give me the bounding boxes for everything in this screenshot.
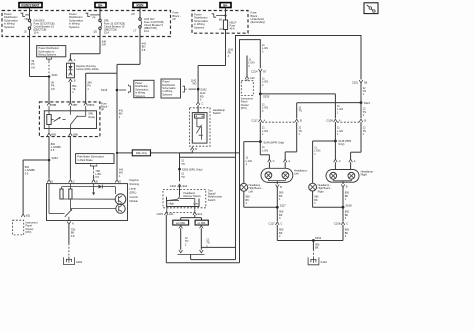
note power distribution box (S216): [134, 80, 154, 98]
wire S404 to ground: [313, 241, 320, 257]
svg-text:S216: S216: [101, 88, 108, 92]
note power distribution 2: [69, 12, 100, 29]
svg-text:H8S: H8S: [51, 133, 56, 137]
svg-text:G104: G104: [321, 260, 328, 264]
splice S262: [197, 87, 207, 101]
wire S148 branch to high beam indicator right: [313, 141, 336, 183]
wire E12 to option boxes: [181, 215, 202, 220]
connector C108 dashed link A-B: [337, 121, 359, 123]
svg-text:Right: Right: [361, 173, 368, 177]
svg-text:TN: TN: [298, 109, 302, 113]
node B+ (DRL fuse feed): [95, 3, 106, 8]
svg-text:A: A: [72, 222, 74, 226]
relay cavity H8B: [47, 103, 56, 107]
svg-text:(IPC): (IPC): [241, 106, 247, 110]
svg-text:S117: S117: [280, 204, 287, 208]
wire relay H3B to DRL module: [69, 137, 71, 179]
svg-text:S335: S335: [263, 95, 270, 99]
wire S108 to C108 C: [343, 207, 350, 221]
svg-text:B: B: [300, 119, 302, 123]
node RUN/START: [19, 3, 42, 8]
node RUN: [133, 3, 147, 8]
DRL module pin A: [67, 222, 74, 226]
svg-text:G201: G201: [76, 260, 83, 264]
svg-text:Systems: Systems: [135, 94, 145, 98]
wire C108 C to S404: [313, 225, 349, 241]
splice S211: [48, 73, 58, 78]
svg-text:C: C: [346, 222, 348, 226]
instrument panel cluster (top, dashed): [241, 81, 254, 110]
svg-text:C201: C201: [157, 212, 164, 216]
wire relay H8S to S264: [49, 137, 61, 179]
svg-text:C201: C201: [352, 80, 359, 84]
svg-text:C117: C117: [268, 222, 275, 226]
wire C117 B to left headlamp pin A: [285, 122, 302, 159]
svg-text:I/P: I/P: [101, 108, 104, 112]
svg-text:B: B: [96, 180, 98, 184]
pin A of DRL diode: [69, 58, 76, 62]
wire S146 branch to high beam indicator left: [244, 142, 260, 184]
wire C108 A to S148: [335, 122, 343, 141]
pin B of headlamp switch: [191, 147, 198, 151]
svg-text:E: E: [119, 180, 121, 184]
fuse AUX RLY: [132, 8, 164, 33]
wire S146 to left headlamp pin C: [260, 142, 269, 160]
fuse block underhood (dashed box): [192, 11, 248, 34]
wire S148 to right headlamp pin C: [334, 141, 336, 159]
note power distribution 1: [4, 12, 30, 29]
DRL module pin E: [115, 180, 121, 184]
svg-text:C108: C108: [334, 222, 341, 226]
wire IPC branch 11 L-GN: [247, 56, 255, 77]
svg-text:D: D: [51, 180, 53, 184]
pin A of right headlamp: [349, 159, 356, 170]
svg-text:E12: E12: [198, 212, 203, 216]
svg-text:RUN/START: RUN/START: [21, 3, 39, 7]
pin B11 of IPC: [21, 214, 31, 218]
connector C117 pin C: [268, 222, 282, 226]
svg-text:A: A: [354, 159, 356, 163]
svg-text:0.8: 0.8: [31, 65, 35, 69]
DRL module pin D: [47, 180, 53, 184]
svg-text:S264: S264: [52, 156, 59, 160]
fuse block I/P (dashed box): [2, 11, 171, 37]
svg-text:B: B: [74, 79, 76, 83]
svg-text:Switch: Switch: [208, 198, 216, 202]
svg-text:A: A: [339, 119, 341, 123]
wire HDLP 1142 RD: [191, 30, 234, 102]
svg-text:S404: S404: [315, 236, 322, 240]
svg-text:w/o DRL: w/o DRL: [176, 221, 186, 225]
splice S216: [101, 85, 131, 94]
wire B7 to S335: [260, 72, 268, 94]
svg-text:Q5: Q5: [94, 30, 98, 34]
svg-text:Systems: Systems: [4, 25, 15, 29]
wire B+ 340 OR to DRL diode: [70, 29, 106, 60]
relay fuse block dashed box: [39, 102, 100, 137]
pin A of left headlamp: [283, 159, 290, 169]
svg-text:E10: E10: [183, 184, 188, 188]
svg-text:A: A: [264, 119, 266, 123]
wire S321 to right headlamp pin A: [351, 103, 367, 160]
connector C214 pin B7: [251, 69, 267, 73]
left headlamp: [261, 168, 308, 182]
svg-text:S260 (DRL Only): S260 (DRL Only): [182, 167, 202, 171]
svg-text:(DRL): (DRL): [130, 191, 137, 195]
high beam indicator left: [240, 183, 263, 193]
svg-text:Low: Low: [193, 202, 198, 206]
svg-text:S262: S262: [200, 87, 207, 91]
wire headlamp switch output: [180, 150, 236, 181]
svg-text:S211: S211: [52, 73, 59, 77]
pin B of right headlamp: [341, 182, 348, 189]
splice S148: [334, 139, 351, 146]
svg-text:DRL Only: DRL Only: [136, 151, 148, 155]
wire 441 BN label at module: [119, 168, 124, 178]
svg-text:C: C: [339, 159, 341, 163]
svg-text:Control: Control: [130, 195, 139, 199]
label fuse block underhood: [251, 11, 266, 25]
relay cavity H3B: [69, 133, 78, 137]
option box w/ DRL: [195, 220, 208, 225]
svg-text:Lamps (DRL) Diode: Lamps (DRL) Diode: [76, 67, 99, 71]
wire high-beam loop (left+top): [240, 40, 261, 263]
svg-text:A: A: [74, 58, 76, 62]
svg-text:RUN: RUN: [137, 3, 145, 7]
svg-text:B: B: [346, 185, 348, 189]
svg-text:(IPC): (IPC): [25, 230, 31, 234]
option box DRL Only: [132, 150, 150, 156]
wire hb indicator right to S108: [313, 191, 343, 207]
svg-text:Relay: Relay: [89, 115, 96, 119]
svg-text:Dimmer Switch: Dimmer Switch: [184, 194, 202, 198]
wire low-beam loop (left+top): [236, 36, 362, 260]
pin B of DRL diode: [69, 79, 76, 83]
svg-text:Left: Left: [294, 172, 299, 176]
svg-text:TN: TN: [181, 162, 185, 166]
svg-text:0.5: 0.5: [25, 171, 29, 175]
wire high-beam E11 run: [166, 215, 239, 263]
svg-text:in Park Brake: in Park Brake: [77, 158, 93, 162]
svg-text:15 A: 15 A: [104, 30, 109, 34]
pin B of left headlamp: [276, 182, 283, 189]
instrument panel cluster (bottom-left, dashed): [13, 220, 38, 235]
merge arrows and bar: [178, 250, 205, 260]
svg-text:OR: OR: [102, 43, 106, 47]
note power distribution box (S262): [161, 79, 196, 98]
svg-text:Lamp: Lamp: [130, 186, 137, 190]
node B+ (HDLP fuse feed): [220, 3, 231, 8]
svg-text:C108: C108: [326, 119, 333, 123]
svg-text:H8B: H8B: [51, 103, 56, 107]
svg-text:S108: S108: [345, 204, 352, 208]
wire module A to ground: [69, 224, 76, 256]
svg-text:H3B: H3B: [73, 133, 78, 137]
svg-text:B11: B11: [26, 214, 31, 218]
svg-text:0.8: 0.8: [142, 48, 146, 52]
wire S117 to C117 C: [277, 207, 284, 221]
svg-text:S321: S321: [364, 101, 371, 105]
relay cavity H8S: [47, 133, 56, 137]
connector C201 pins E11 E12: [157, 212, 203, 216]
svg-text:10 A: 10 A: [34, 30, 39, 34]
wire 441 BN below S216: [119, 109, 124, 119]
svg-text:BK: BK: [315, 246, 319, 250]
relay cavity H8TA: [84, 103, 95, 107]
wire S264 branch to IPC B11: [23, 160, 49, 214]
svg-text:Module: Module: [130, 199, 139, 203]
svg-text:Switch: Switch: [213, 111, 221, 115]
svg-text:Only): Only): [338, 142, 344, 146]
turn signal / multifunction switch (dashed): [163, 188, 223, 207]
wire left headlamp B to S117: [277, 188, 284, 208]
connector C117 pin B: [295, 119, 302, 123]
svg-text:B: B: [195, 147, 197, 151]
svg-text:Park Brake Schematics: Park Brake Schematics: [77, 155, 104, 159]
DRL module pin C: [69, 180, 75, 184]
connector C201 pin B6 (low beam loop): [352, 80, 368, 84]
DRL module pin B: [92, 180, 98, 184]
svg-text:Wiring Systems: Wiring Systems: [38, 53, 56, 57]
connector C117 pin A: [251, 119, 265, 123]
svg-text:C117: C117: [251, 119, 258, 123]
option box w/o DRL: [173, 220, 189, 225]
DRL diode: [67, 63, 100, 78]
wire RUN 441 BN: [117, 28, 147, 179]
splice S108: [342, 204, 353, 209]
svg-text:H8T: H8T: [73, 103, 78, 107]
wire S335 down to C117 A: [260, 94, 268, 118]
ground G104: [308, 257, 327, 265]
svg-text:0.5: 0.5: [51, 148, 55, 152]
svg-text:C: C: [73, 180, 75, 184]
svg-text:w/ DRL: w/ DRL: [198, 221, 207, 225]
headlamp switch: [190, 105, 226, 146]
svg-text:C214: C214: [251, 69, 258, 73]
connector C108 pin A: [326, 119, 340, 123]
wire 804 YE to relay H8T: [70, 82, 77, 103]
fuse GAUGES: [24, 8, 55, 35]
svg-text:0.8: 0.8: [51, 87, 55, 91]
pin C of left headlamp: [268, 159, 275, 169]
svg-text:B+: B+: [98, 3, 102, 7]
svg-text:A: A: [288, 159, 290, 163]
label fuse block I/P (relay): [101, 102, 109, 112]
wire loop to B7 label: [262, 43, 268, 53]
splice S404: [312, 236, 322, 242]
DRL relay: [44, 106, 96, 133]
splice S264: [48, 156, 59, 161]
svg-text:B+: B+: [223, 3, 227, 7]
wire merge to low-beam loop: [191, 259, 236, 261]
splice S260: [178, 159, 202, 179]
svg-text:B: B: [364, 119, 366, 123]
wire C117 A to S146: [260, 122, 268, 142]
connector C108 pin C: [334, 222, 348, 226]
wire S335 branch to right side: [260, 94, 343, 118]
svg-text:Right: Right: [318, 189, 324, 193]
DRL control module: [47, 178, 140, 221]
wire C117 C to S404: [277, 225, 313, 241]
splice S335: [259, 93, 270, 99]
pin C of headlamp switch: [196, 102, 203, 106]
wire DRL only branch: [116, 152, 132, 154]
wire RUN/START 39 PK: [30, 29, 50, 76]
wire right headlamp B to S108: [343, 187, 350, 207]
svg-text:High: High: [169, 202, 175, 206]
splice S321: [360, 101, 371, 105]
svg-text:B: B: [280, 185, 282, 189]
svg-text:TN: TN: [181, 175, 185, 179]
svg-text:C: C: [273, 159, 275, 163]
svg-text:S146 (HPR Only): S146 (HPR Only): [263, 140, 284, 144]
svg-text:0.8: 0.8: [71, 234, 75, 238]
svg-text:Systems: Systems: [162, 92, 172, 96]
wire low-beam loop branch: [201, 246, 235, 248]
wire from w/ DRL: [200, 226, 210, 250]
svg-text:40 A: 40 A: [230, 26, 235, 30]
wire branch 346 PU to relay H8TA: [86, 73, 117, 103]
wire B6 to S321: [361, 83, 366, 103]
connector C201 pin E10: [170, 184, 188, 188]
wire hb indicator left to S117: [244, 191, 277, 207]
svg-text:0.5: 0.5: [95, 175, 99, 179]
svg-text:10 A: 10 A: [144, 29, 149, 33]
headlamp dimmer switch: [167, 185, 202, 212]
svg-text:C: C: [202, 102, 204, 106]
high beam indicator right: [309, 183, 332, 193]
splice S117: [276, 204, 286, 209]
svg-text:L-GN: L-GN: [262, 148, 268, 152]
label fuse block I/P: [173, 11, 181, 21]
wire from w/o DRL: [179, 226, 189, 250]
svg-text:Daytime: Daytime: [130, 178, 140, 182]
svg-text:(Secondary): (Secondary): [251, 20, 266, 24]
svg-text:Left: Left: [249, 189, 254, 193]
legend icon box: [364, 3, 378, 14]
svg-text:A10: A10: [250, 76, 255, 80]
svg-text:Running: Running: [130, 182, 140, 186]
connector C108 pin B: [359, 119, 366, 123]
svg-text:H8TA: H8TA: [88, 103, 95, 107]
svg-text:C: C: [281, 222, 283, 226]
relay cavity H8T: [69, 103, 78, 107]
note power distribution box (S211): [37, 46, 66, 75]
connector C117 dashed link A-B: [262, 121, 295, 123]
svg-text:I/P: I/P: [173, 17, 176, 21]
svg-text:RD: RD: [193, 82, 197, 86]
splice S146: [259, 140, 284, 144]
pin A10 of IPC: [245, 76, 255, 81]
svg-text:Systems: Systems: [69, 25, 80, 29]
wire S211 to relay H8B: [49, 77, 55, 104]
fuse DRL: [94, 8, 126, 35]
wire DRL only to high-beam loop: [151, 152, 240, 154]
svg-text:C201: C201: [170, 184, 177, 188]
wire S321 branch to left low beam: [297, 103, 361, 119]
fuse HDLP: [219, 8, 237, 32]
right headlamp: [326, 170, 375, 183]
park brake note box: [76, 154, 114, 180]
svg-text:Systems: Systems: [194, 25, 205, 29]
ground G201: [64, 257, 83, 265]
pin C of right headlamp: [334, 159, 341, 170]
note power distribution 3 (underhood): [194, 13, 227, 30]
